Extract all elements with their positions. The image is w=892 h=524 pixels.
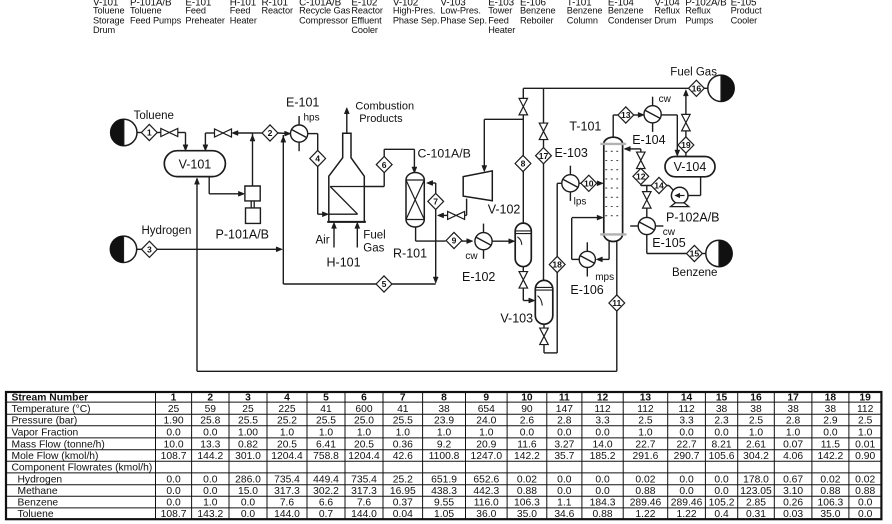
stream diamond 11 bbox=[609, 295, 625, 311]
svg-text:High-Pres.: High-Pres. bbox=[393, 6, 435, 16]
svg-text:P-101A/B: P-101A/B bbox=[216, 228, 270, 242]
svg-text:178.0: 178.0 bbox=[743, 474, 769, 485]
wire toluene recycle bottom line bbox=[197, 370, 617, 372]
svg-text:0.0: 0.0 bbox=[241, 509, 256, 520]
svg-text:Reactor: Reactor bbox=[351, 6, 383, 16]
svg-text:0.88: 0.88 bbox=[517, 486, 537, 497]
svg-text:758.8: 758.8 bbox=[313, 451, 339, 462]
svg-text:5: 5 bbox=[382, 279, 387, 289]
svg-text:0.02: 0.02 bbox=[820, 474, 840, 485]
svg-text:0.0: 0.0 bbox=[714, 474, 729, 485]
svg-text:lps: lps bbox=[574, 196, 587, 207]
svg-text:143.2: 143.2 bbox=[197, 509, 223, 520]
svg-text:13: 13 bbox=[621, 110, 631, 120]
svg-text:600: 600 bbox=[355, 404, 372, 415]
pump P-102A/B bbox=[671, 187, 689, 206]
svg-text:Cooler: Cooler bbox=[731, 15, 758, 25]
svg-text:1.0: 1.0 bbox=[858, 427, 873, 438]
wire E-102 to V-102 bbox=[492, 240, 513, 242]
svg-text:438.3: 438.3 bbox=[431, 486, 457, 497]
wire V-102 bottoms to V-103 bbox=[522, 267, 524, 272]
svg-text:8: 8 bbox=[521, 159, 526, 169]
svg-text:112: 112 bbox=[637, 404, 654, 415]
svg-text:0.0: 0.0 bbox=[203, 427, 218, 438]
svg-text:0.0: 0.0 bbox=[714, 427, 729, 438]
svg-text:0.88: 0.88 bbox=[820, 486, 840, 497]
svg-text:0.0: 0.0 bbox=[714, 486, 729, 497]
svg-text:T-101: T-101 bbox=[569, 120, 601, 134]
svg-text:0.0: 0.0 bbox=[557, 427, 572, 438]
svg-text:41: 41 bbox=[320, 404, 332, 415]
svg-text:V-104: V-104 bbox=[674, 160, 707, 174]
svg-text:R-101: R-101 bbox=[393, 247, 427, 261]
svg-text:35.0: 35.0 bbox=[517, 509, 537, 520]
svg-text:18: 18 bbox=[825, 393, 837, 404]
svg-text:Storage: Storage bbox=[93, 15, 124, 25]
svg-text:E-102: E-102 bbox=[462, 270, 495, 284]
toluene feed symbol bbox=[111, 119, 137, 145]
svg-text:35.7: 35.7 bbox=[554, 451, 574, 462]
svg-text:cw: cw bbox=[659, 94, 672, 105]
wire column overhead to E-104 bbox=[612, 115, 614, 137]
svg-text:Mass Flow (tonne/h): Mass Flow (tonne/h) bbox=[12, 439, 105, 450]
stream diamond 3 bbox=[142, 241, 158, 257]
wire fuel gas inlet arrow bbox=[356, 224, 358, 248]
wire E-104 outlet to V-104 bbox=[661, 114, 677, 116]
wire V-101 outlet to pumps bbox=[208, 177, 210, 194]
svg-text:Benzene: Benzene bbox=[672, 267, 717, 279]
svg-text:2.8: 2.8 bbox=[786, 416, 801, 427]
svg-text:9: 9 bbox=[452, 236, 457, 246]
svg-text:1.0: 1.0 bbox=[203, 498, 218, 509]
svg-text:0.37: 0.37 bbox=[393, 498, 413, 509]
wire column bottoms draw to E-106 bbox=[608, 241, 610, 260]
wire compressor discharge riser x=435.7 bbox=[435, 183, 437, 283]
svg-text:1.90: 1.90 bbox=[164, 416, 184, 427]
stream diamond 18 bbox=[549, 256, 565, 272]
cooler E-105 bbox=[638, 217, 655, 234]
wire V-103 bottoms to E-103 riser bbox=[543, 324, 545, 328]
svg-text:Preheater: Preheater bbox=[185, 15, 224, 25]
svg-text:Combustion: Combustion bbox=[355, 101, 414, 113]
svg-text:0.0: 0.0 bbox=[203, 486, 218, 497]
svg-text:Heater: Heater bbox=[230, 15, 257, 25]
svg-text:P-102A/B: P-102A/B bbox=[666, 210, 720, 224]
svg-text:142.2: 142.2 bbox=[514, 451, 540, 462]
stream diamond 1 bbox=[141, 124, 157, 140]
svg-text:8.21: 8.21 bbox=[712, 439, 732, 450]
svg-text:35.0: 35.0 bbox=[820, 509, 840, 520]
svg-text:7.6: 7.6 bbox=[357, 498, 372, 509]
svg-text:Drum: Drum bbox=[654, 15, 677, 25]
svg-text:0.0: 0.0 bbox=[595, 474, 610, 485]
svg-text:Toluene: Toluene bbox=[93, 6, 124, 16]
svg-text:17: 17 bbox=[787, 393, 799, 404]
wire V-103 vapor riser x=543.5 bbox=[543, 164, 545, 280]
svg-text:6.6: 6.6 bbox=[319, 498, 334, 509]
svg-text:317.3: 317.3 bbox=[274, 486, 300, 497]
svg-text:442.3: 442.3 bbox=[473, 486, 499, 497]
svg-text:Temperature (°C): Temperature (°C) bbox=[12, 404, 91, 415]
svg-text:Feed Pumps: Feed Pumps bbox=[130, 15, 182, 25]
svg-text:147: 147 bbox=[556, 404, 573, 415]
svg-text:3.10: 3.10 bbox=[783, 486, 803, 497]
svg-text:42.6: 42.6 bbox=[393, 451, 413, 462]
svg-text:cw: cw bbox=[465, 251, 478, 262]
svg-text:6: 6 bbox=[361, 393, 367, 404]
svg-text:15.0: 15.0 bbox=[238, 486, 258, 497]
svg-text:1.0: 1.0 bbox=[357, 427, 372, 438]
wire E-106 return to column bbox=[572, 258, 579, 260]
svg-text:1.0: 1.0 bbox=[396, 427, 411, 438]
svg-text:E-104: E-104 bbox=[632, 133, 665, 147]
svg-text:3.3: 3.3 bbox=[679, 416, 694, 427]
svg-text:185.2: 185.2 bbox=[590, 451, 616, 462]
svg-text:1100.8: 1100.8 bbox=[429, 451, 460, 462]
svg-text:106.3: 106.3 bbox=[818, 498, 844, 509]
svg-text:735.4: 735.4 bbox=[274, 474, 300, 485]
stream diamond 5 bbox=[376, 276, 392, 292]
svg-text:16: 16 bbox=[750, 393, 762, 404]
svg-text:Reboiler: Reboiler bbox=[520, 15, 553, 25]
svg-text:mps: mps bbox=[595, 272, 614, 283]
svg-text:11: 11 bbox=[559, 393, 570, 404]
svg-text:112: 112 bbox=[594, 404, 611, 415]
svg-text:11.5: 11.5 bbox=[821, 439, 841, 450]
svg-text:0.01: 0.01 bbox=[855, 439, 875, 450]
svg-text:0.26: 0.26 bbox=[783, 498, 803, 509]
svg-text:0.0: 0.0 bbox=[166, 486, 181, 497]
reactor R-101 bbox=[406, 173, 424, 228]
stream diamond 16 bbox=[689, 80, 705, 96]
svg-text:3: 3 bbox=[245, 393, 251, 404]
svg-text:0.88: 0.88 bbox=[635, 486, 655, 497]
svg-text:19: 19 bbox=[681, 140, 691, 150]
svg-text:Feed: Feed bbox=[185, 6, 206, 16]
svg-text:6: 6 bbox=[382, 160, 387, 170]
svg-text:17: 17 bbox=[539, 151, 549, 161]
svg-text:23.9: 23.9 bbox=[434, 416, 454, 427]
heat exchanger E-103 bbox=[562, 175, 579, 192]
svg-text:Reactor: Reactor bbox=[262, 6, 294, 16]
svg-text:18: 18 bbox=[552, 260, 562, 270]
svg-text:Products: Products bbox=[359, 113, 403, 125]
svg-text:Feed: Feed bbox=[230, 6, 251, 16]
svg-text:Benzene: Benzene bbox=[567, 6, 603, 16]
svg-text:25.0: 25.0 bbox=[354, 416, 374, 427]
wire V-104 liquid to pump bbox=[700, 177, 702, 196]
svg-text:0.0: 0.0 bbox=[823, 427, 838, 438]
stream diamond 12 bbox=[633, 168, 649, 184]
svg-text:25: 25 bbox=[168, 404, 180, 415]
compressor C-101A/B bbox=[463, 171, 492, 201]
svg-text:Gas: Gas bbox=[363, 242, 384, 254]
svg-text:E-106: E-106 bbox=[570, 283, 603, 297]
condenser E-104 bbox=[644, 106, 661, 123]
svg-text:Benzene: Benzene bbox=[520, 6, 556, 16]
svg-text:105.2: 105.2 bbox=[709, 498, 735, 509]
svg-text:1: 1 bbox=[147, 128, 152, 138]
svg-text:0.0: 0.0 bbox=[679, 427, 694, 438]
svg-text:1.05: 1.05 bbox=[434, 509, 454, 520]
svg-text:0.02: 0.02 bbox=[855, 474, 875, 485]
svg-text:0.0: 0.0 bbox=[166, 427, 181, 438]
wire combustion products stack arrow bbox=[346, 110, 348, 133]
svg-text:0.0: 0.0 bbox=[679, 486, 694, 497]
wire E-105 outlet to benzene product bbox=[646, 235, 648, 254]
svg-text:2.61: 2.61 bbox=[746, 439, 766, 450]
svg-text:2.6: 2.6 bbox=[520, 416, 535, 427]
svg-text:10: 10 bbox=[584, 179, 594, 189]
svg-text:0.90: 0.90 bbox=[855, 451, 875, 462]
svg-text:286.0: 286.0 bbox=[235, 474, 261, 485]
svg-text:9: 9 bbox=[483, 393, 489, 404]
svg-text:0.7: 0.7 bbox=[319, 509, 334, 520]
svg-text:14: 14 bbox=[681, 393, 693, 404]
valve V-103 bottoms bbox=[540, 328, 549, 336]
svg-text:1.1: 1.1 bbox=[557, 498, 572, 509]
svg-text:0.04: 0.04 bbox=[393, 509, 413, 520]
svg-text:1.00: 1.00 bbox=[238, 427, 258, 438]
svg-text:8: 8 bbox=[441, 393, 447, 404]
svg-text:3.3: 3.3 bbox=[595, 416, 610, 427]
svg-text:652.6: 652.6 bbox=[473, 474, 499, 485]
furnace H-101 bbox=[327, 133, 366, 222]
svg-text:13.3: 13.3 bbox=[200, 439, 220, 450]
svg-text:4: 4 bbox=[315, 154, 320, 164]
svg-text:Toluene: Toluene bbox=[134, 110, 174, 122]
svg-text:25.5: 25.5 bbox=[316, 416, 336, 427]
svg-text:144.2: 144.2 bbox=[197, 451, 223, 462]
wire tee to recycle valve into V-101 bbox=[234, 132, 253, 134]
svg-text:Pressure (bar): Pressure (bar) bbox=[12, 416, 78, 427]
svg-text:0.02: 0.02 bbox=[517, 474, 537, 485]
wire column bottoms product line bbox=[616, 241, 618, 295]
svg-text:108.7: 108.7 bbox=[161, 509, 187, 520]
svg-text:H-101: H-101 bbox=[327, 256, 361, 270]
svg-text:142.2: 142.2 bbox=[818, 451, 844, 462]
svg-text:654: 654 bbox=[478, 404, 495, 415]
svg-text:144.0: 144.0 bbox=[351, 509, 377, 520]
svg-text:290.7: 290.7 bbox=[674, 451, 700, 462]
svg-text:14.0: 14.0 bbox=[593, 439, 613, 450]
svg-text:1.0: 1.0 bbox=[437, 427, 452, 438]
stream diamond 9 bbox=[446, 232, 462, 248]
svg-text:0.4: 0.4 bbox=[714, 509, 729, 520]
wire air inlet arrow bbox=[333, 224, 335, 248]
svg-text:E-103: E-103 bbox=[555, 146, 588, 160]
svg-text:317.3: 317.3 bbox=[351, 486, 377, 497]
svg-text:2.5: 2.5 bbox=[638, 416, 653, 427]
benzene product symbol bbox=[706, 240, 732, 266]
valve V-103 vapor bbox=[539, 123, 548, 131]
svg-text:0.0: 0.0 bbox=[858, 509, 873, 520]
svg-text:Fuel: Fuel bbox=[363, 230, 385, 242]
wire E-103 outlet to column bbox=[579, 182, 581, 184]
svg-text:449.4: 449.4 bbox=[313, 474, 339, 485]
svg-text:7: 7 bbox=[433, 197, 438, 207]
svg-text:184.3: 184.3 bbox=[590, 498, 616, 509]
svg-text:4.06: 4.06 bbox=[783, 451, 803, 462]
wire V-104 vapor to fuel gas header bbox=[685, 153, 687, 156]
svg-text:0.0: 0.0 bbox=[679, 474, 694, 485]
stream diamond 19 bbox=[678, 137, 694, 153]
svg-text:0.0: 0.0 bbox=[557, 474, 572, 485]
svg-text:V-102: V-102 bbox=[488, 202, 521, 216]
stream diamond 6 bbox=[376, 157, 392, 173]
svg-text:Reflux: Reflux bbox=[654, 6, 680, 16]
svg-text:Fuel Gas: Fuel Gas bbox=[670, 66, 717, 78]
svg-text:0.07: 0.07 bbox=[783, 439, 803, 450]
svg-text:Benzene: Benzene bbox=[18, 498, 59, 509]
svg-text:12: 12 bbox=[597, 393, 609, 404]
svg-text:15: 15 bbox=[716, 393, 728, 404]
svg-text:Mole Flow (kmol/h): Mole Flow (kmol/h) bbox=[12, 451, 99, 462]
svg-text:25.5: 25.5 bbox=[238, 416, 258, 427]
svg-text:Benzene: Benzene bbox=[608, 6, 644, 16]
svg-text:108.7: 108.7 bbox=[161, 451, 187, 462]
reboiler E-106 bbox=[579, 251, 595, 267]
svg-text:15: 15 bbox=[690, 249, 700, 259]
svg-text:0.02: 0.02 bbox=[635, 474, 655, 485]
svg-text:38: 38 bbox=[716, 404, 728, 415]
svg-text:106.3: 106.3 bbox=[514, 498, 540, 509]
svg-text:41: 41 bbox=[397, 404, 409, 415]
svg-text:V-101: V-101 bbox=[179, 158, 212, 172]
svg-text:25.8: 25.8 bbox=[200, 416, 220, 427]
svg-text:302.2: 302.2 bbox=[313, 486, 339, 497]
svg-text:Component Flowrates (kmol/h): Component Flowrates (kmol/h) bbox=[12, 463, 153, 474]
svg-text:E-105: E-105 bbox=[652, 236, 685, 250]
vessel V-104 reflux drum bbox=[665, 157, 715, 177]
svg-text:25.2: 25.2 bbox=[277, 416, 297, 427]
svg-text:38: 38 bbox=[787, 404, 799, 415]
wire reflux/product header from pump bbox=[640, 167, 642, 169]
vessel V-102 bbox=[515, 223, 531, 266]
wire V-104 vapor join arrow bbox=[683, 90, 688, 96]
svg-text:1.0: 1.0 bbox=[319, 427, 334, 438]
svg-text:Phase Sep.: Phase Sep. bbox=[393, 15, 440, 25]
svg-text:1.0: 1.0 bbox=[786, 427, 801, 438]
pump P-101A/B bbox=[245, 186, 261, 223]
svg-text:291.6: 291.6 bbox=[633, 451, 659, 462]
svg-text:2.85: 2.85 bbox=[746, 498, 766, 509]
svg-text:11: 11 bbox=[612, 298, 621, 308]
svg-text:1204.4: 1204.4 bbox=[271, 451, 303, 462]
svg-text:2: 2 bbox=[268, 128, 273, 138]
svg-text:Vapor Fraction: Vapor Fraction bbox=[12, 427, 79, 438]
svg-text:5: 5 bbox=[323, 393, 329, 404]
svg-text:V-103: V-103 bbox=[500, 311, 533, 325]
svg-text:Drum: Drum bbox=[93, 25, 116, 35]
svg-text:38: 38 bbox=[438, 404, 450, 415]
svg-text:34.6: 34.6 bbox=[554, 509, 574, 520]
svg-text:2.3: 2.3 bbox=[714, 416, 729, 427]
svg-text:105.6: 105.6 bbox=[709, 451, 735, 462]
svg-text:12: 12 bbox=[636, 172, 646, 182]
svg-text:3.27: 3.27 bbox=[554, 439, 574, 450]
wire quench into R-101 side bbox=[428, 182, 436, 184]
svg-text:0.0: 0.0 bbox=[166, 498, 181, 509]
wire toluene feed to V-101 bbox=[137, 132, 141, 134]
svg-text:C-101A/B: C-101A/B bbox=[418, 147, 471, 161]
valve compressor discharge bbox=[448, 211, 457, 219]
stream diamond 7 bbox=[428, 193, 444, 209]
svg-text:Cooler: Cooler bbox=[351, 25, 378, 35]
svg-text:Tower: Tower bbox=[488, 6, 512, 16]
svg-text:Recycle Gas: Recycle Gas bbox=[299, 6, 350, 16]
svg-text:22.7: 22.7 bbox=[677, 439, 697, 450]
svg-text:20.9: 20.9 bbox=[476, 439, 496, 450]
vessel V-103 bbox=[535, 280, 553, 324]
svg-text:0.0: 0.0 bbox=[557, 486, 572, 497]
svg-text:1.0: 1.0 bbox=[638, 427, 653, 438]
svg-text:112: 112 bbox=[857, 404, 874, 415]
svg-text:90: 90 bbox=[521, 404, 533, 415]
column T-101 bbox=[600, 137, 626, 241]
svg-text:0.88: 0.88 bbox=[855, 486, 875, 497]
svg-text:Toluene: Toluene bbox=[130, 6, 161, 16]
svg-text:Low-Pres.: Low-Pres. bbox=[440, 6, 480, 16]
svg-text:225: 225 bbox=[278, 404, 295, 415]
hydrogen feed symbol bbox=[110, 236, 136, 262]
stream diamond 14 bbox=[651, 177, 667, 193]
svg-text:13: 13 bbox=[640, 393, 652, 404]
svg-text:1.0: 1.0 bbox=[479, 427, 494, 438]
heat exchanger E-102 bbox=[475, 233, 492, 250]
svg-text:Condenser: Condenser bbox=[608, 15, 652, 25]
stream data table bbox=[6, 392, 881, 520]
svg-text:0.36: 0.36 bbox=[393, 439, 413, 450]
svg-text:1247.0: 1247.0 bbox=[471, 451, 503, 462]
svg-text:2: 2 bbox=[207, 393, 213, 404]
svg-text:38: 38 bbox=[750, 404, 762, 415]
svg-text:0.0: 0.0 bbox=[241, 498, 256, 509]
svg-text:1204.4: 1204.4 bbox=[348, 451, 380, 462]
svg-text:0.0: 0.0 bbox=[520, 427, 535, 438]
stream diamond 17 bbox=[536, 148, 552, 164]
wire E-101 outlet to H-101 bbox=[308, 133, 318, 135]
svg-text:0.88: 0.88 bbox=[593, 509, 613, 520]
svg-text:1: 1 bbox=[171, 393, 177, 404]
wire branch to compressor suction bbox=[484, 118, 523, 120]
stream diamond 8 bbox=[515, 155, 531, 171]
svg-text:304.2: 304.2 bbox=[743, 451, 769, 462]
svg-text:289.46: 289.46 bbox=[671, 498, 703, 509]
svg-text:2.8: 2.8 bbox=[557, 416, 572, 427]
svg-text:7: 7 bbox=[400, 393, 406, 404]
svg-text:Product: Product bbox=[731, 6, 763, 16]
valve purge to fuel gas bbox=[519, 98, 528, 106]
svg-text:0.31: 0.31 bbox=[746, 509, 766, 520]
svg-text:20.5: 20.5 bbox=[354, 439, 374, 450]
valve reflux bbox=[637, 152, 646, 160]
stream diamond 2 bbox=[262, 125, 278, 141]
svg-text:Pumps: Pumps bbox=[685, 15, 714, 25]
valve V-102 bottoms bbox=[519, 272, 528, 280]
svg-text:2.5: 2.5 bbox=[749, 416, 764, 427]
svg-text:10: 10 bbox=[521, 393, 533, 404]
svg-text:0.0: 0.0 bbox=[858, 498, 873, 509]
valve toluene feed bbox=[161, 129, 170, 137]
svg-text:1.22: 1.22 bbox=[677, 509, 697, 520]
svg-text:289.46: 289.46 bbox=[630, 498, 662, 509]
svg-text:11.6: 11.6 bbox=[517, 439, 537, 450]
svg-text:112: 112 bbox=[678, 404, 695, 415]
svg-text:9.2: 9.2 bbox=[437, 439, 452, 450]
valve V-101 recycle bbox=[215, 129, 224, 137]
svg-text:Air: Air bbox=[316, 235, 330, 247]
